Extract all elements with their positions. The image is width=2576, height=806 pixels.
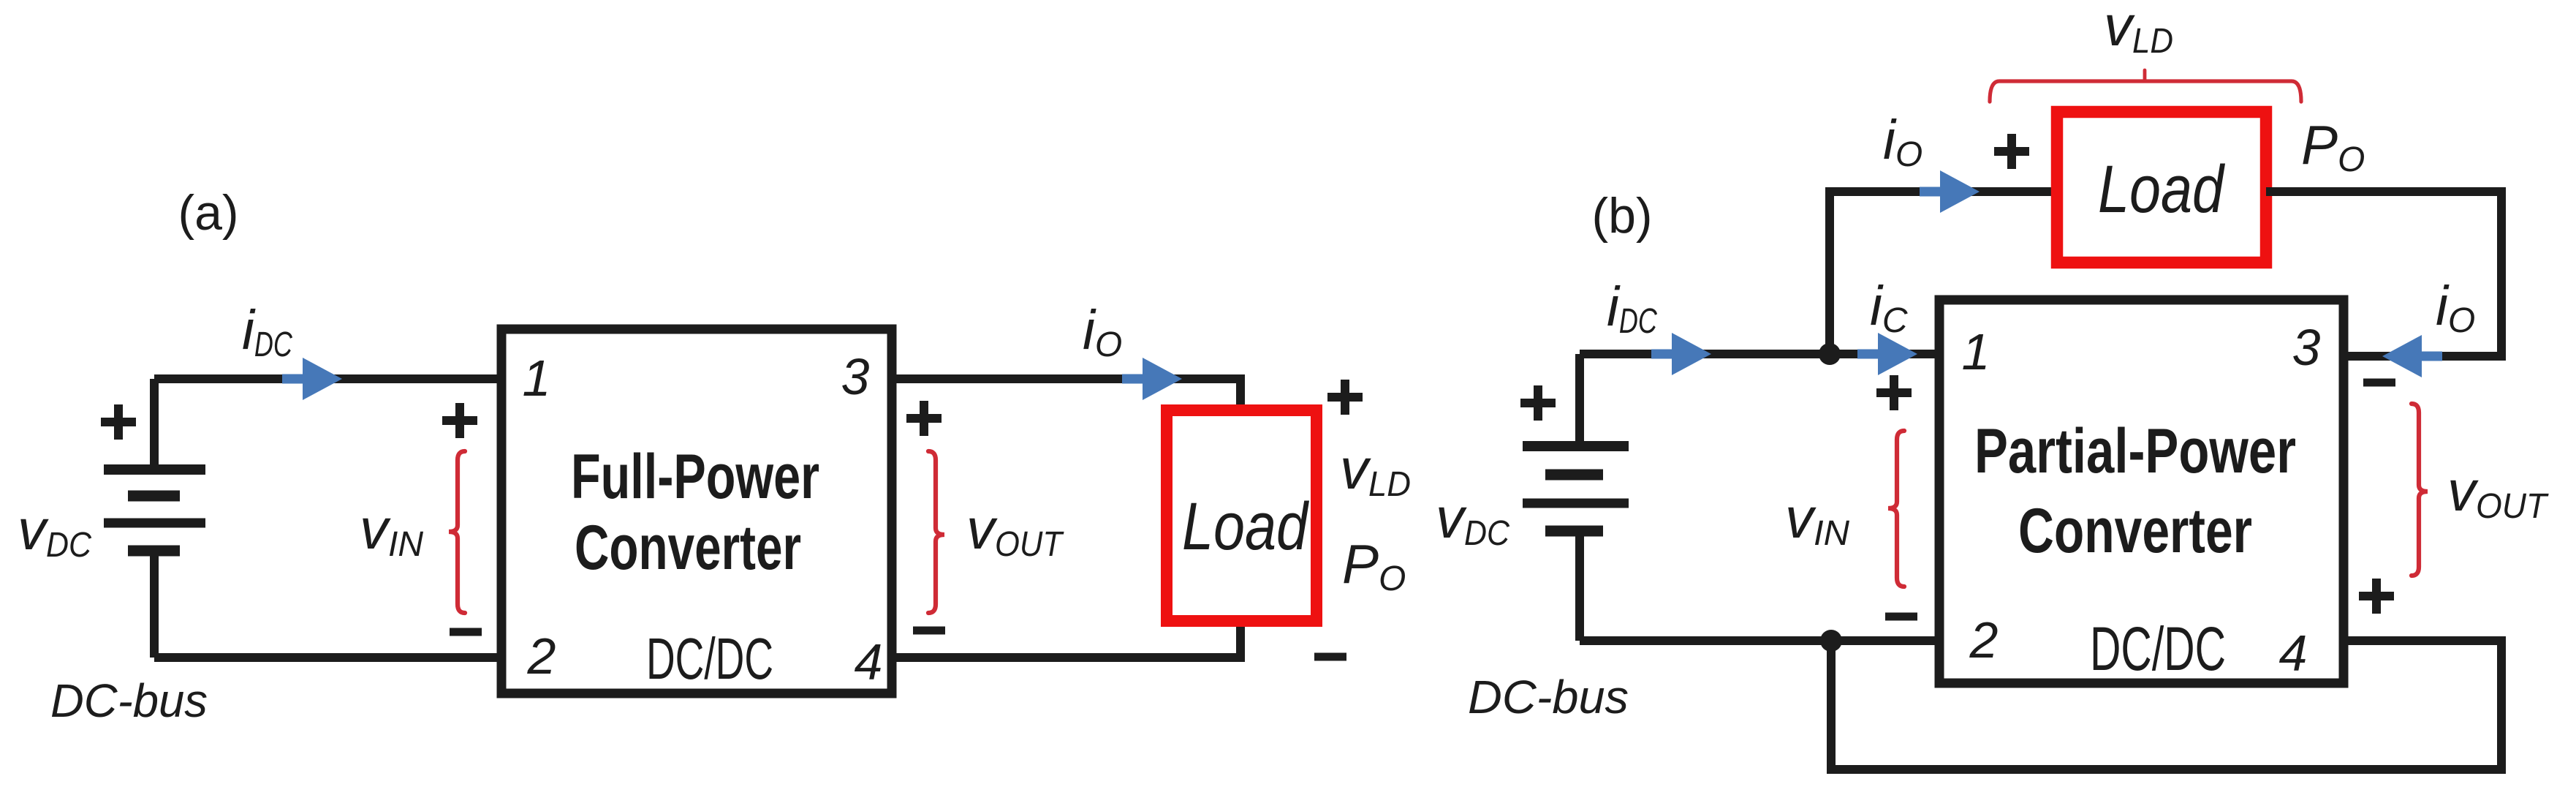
svg-text:Load: Load: [2098, 152, 2225, 227]
converter box U2 Partial-Power Converter: [1939, 300, 2344, 683]
wire converter pin 3 to load (a): [892, 379, 1240, 414]
node junction top (b): [1819, 343, 1841, 365]
svg-text:Full-Power: Full-Power: [571, 442, 819, 512]
v_OUT brace (a): [928, 451, 944, 613]
load plus sign (b): [1994, 134, 2029, 169]
v_IN minus sign (b): [1885, 613, 1917, 621]
load minus sign (a): [1314, 653, 1346, 661]
svg-text:3: 3: [2292, 319, 2321, 376]
svg-text:Load: Load: [1182, 489, 1309, 564]
pin3 minus sign (b): [2363, 379, 2395, 387]
current arrow i_O (a): [1122, 358, 1182, 400]
wire top (a): source to converter pin 1: [154, 374, 501, 383]
v_OUT minus sign (a): [913, 627, 945, 635]
return wire pin 4 loop (b): [1831, 641, 2501, 769]
wire bottom (a): source to converter pin 2: [154, 653, 501, 662]
current arrow i_O top (b): [1920, 170, 1980, 213]
current arrow i_C (b): [1857, 333, 1917, 375]
wire branch node to load (b): [1830, 192, 2057, 354]
v_OUT plus sign (b): [2359, 579, 2394, 614]
v_IN brace (a): [449, 451, 465, 613]
v_OUT plus sign (a): [906, 401, 942, 436]
load plus sign (a): [1327, 380, 1363, 415]
svg-text:DC/DC: DC/DC: [2090, 614, 2226, 683]
svg-text:4: 4: [2279, 625, 2308, 682]
svg-text:(b): (b): [1591, 188, 1652, 244]
svg-text:DC-bus: DC-bus: [50, 674, 208, 727]
svg-text:Partial-Power: Partial-Power: [1974, 416, 2296, 486]
current arrow i_O right (b): [2382, 335, 2442, 377]
battery plus sign (b): [1520, 385, 1556, 421]
v_IN plus sign (b): [1876, 375, 1912, 410]
v_IN minus sign (a): [450, 628, 482, 636]
load resistor box (b): [2057, 112, 2266, 263]
svg-text:2: 2: [527, 628, 556, 685]
svg-text:2: 2: [1969, 611, 1999, 668]
wire converter pin 4 to load bottom (a): [892, 618, 1240, 658]
current arrow i_DC (a): [282, 358, 342, 400]
wire top (b): source to converter pin 1: [1580, 350, 1939, 358]
svg-text:DC-bus: DC-bus: [1468, 671, 1629, 723]
svg-text:(a): (a): [178, 185, 238, 241]
svg-text:Converter: Converter: [2018, 496, 2252, 566]
svg-text:Converter: Converter: [575, 513, 801, 583]
current arrow i_DC (b): [1651, 333, 1711, 375]
wire bottom (b): source to converter pin 2: [1580, 636, 1939, 645]
wire load to converter pin 3 (b): [2266, 192, 2501, 356]
load resistor box (a): [1167, 410, 1317, 621]
svg-text:1: 1: [523, 350, 551, 407]
v_IN plus sign (a): [442, 403, 477, 438]
battery plus sign (a): [101, 404, 136, 440]
svg-text:1: 1: [1962, 323, 1990, 380]
battery V_DC (a): [104, 379, 205, 658]
v_LD brace (b): [1990, 81, 2301, 102]
svg-text:DC/DC: DC/DC: [646, 626, 773, 691]
converter box U1 Full-Power Converter: [501, 329, 892, 693]
v_IN brace (b): [1888, 431, 1904, 587]
svg-text:3: 3: [841, 348, 870, 405]
battery V_DC (b): [1523, 354, 1629, 641]
v_OUT brace (b): [2412, 404, 2428, 576]
node junction bottom (b): [1820, 630, 1842, 652]
svg-text:4: 4: [855, 633, 883, 690]
